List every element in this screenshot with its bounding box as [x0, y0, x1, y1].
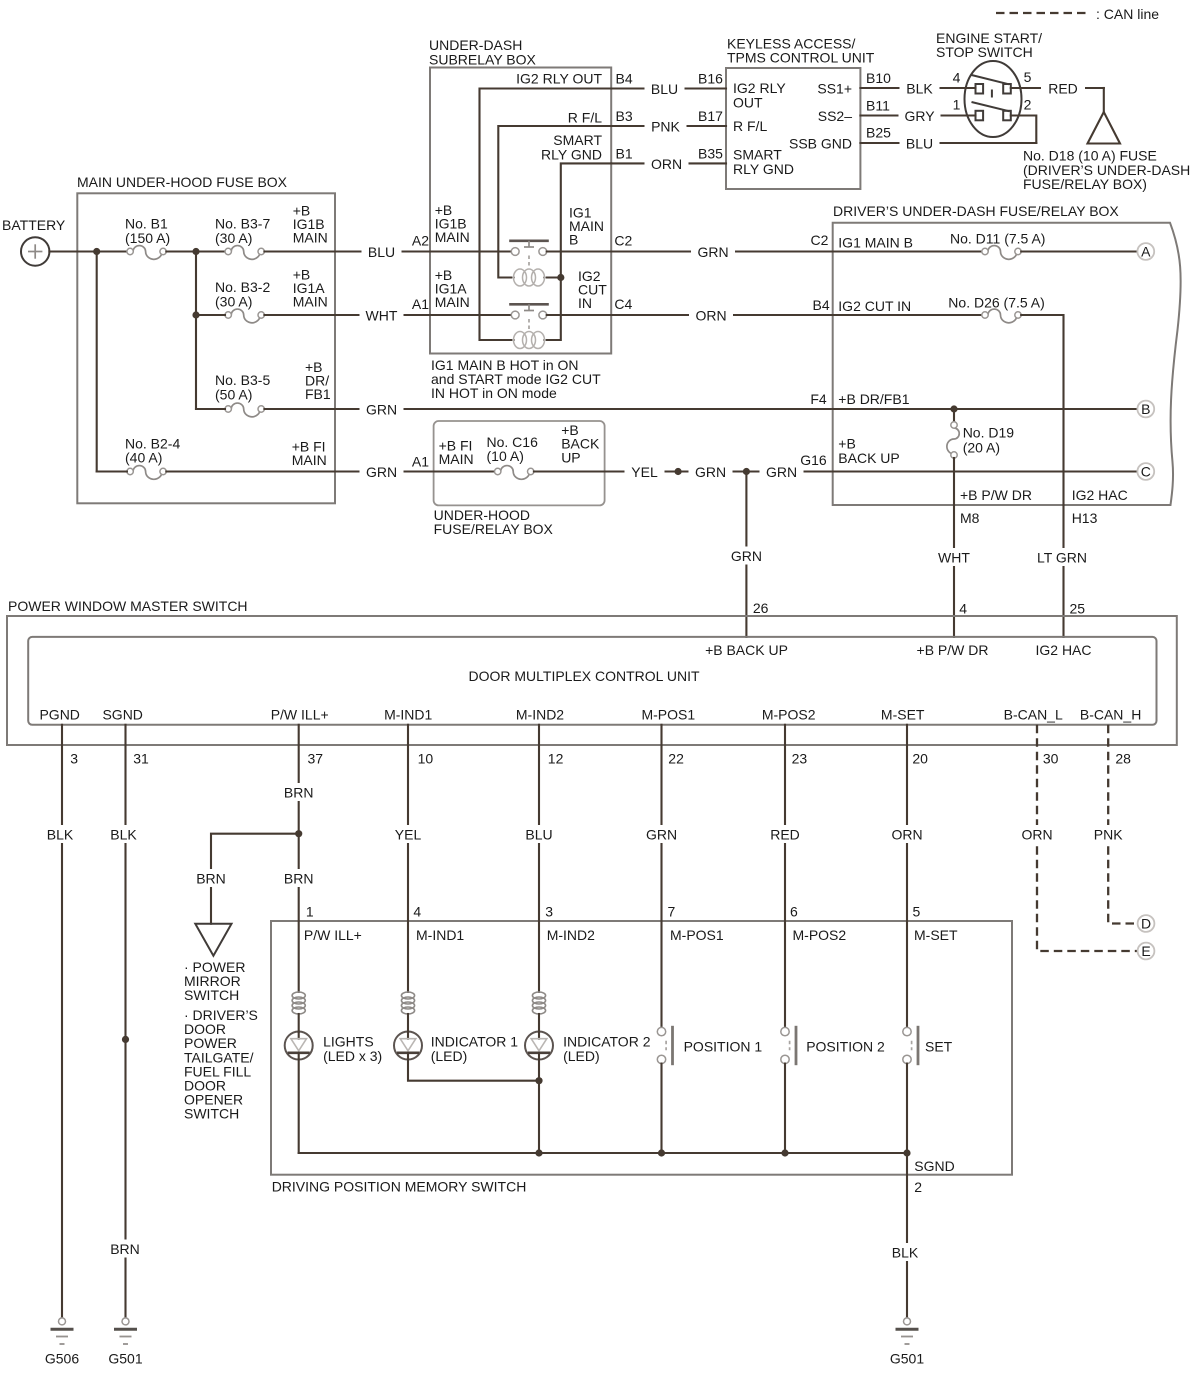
svg-text:BRN: BRN	[196, 871, 226, 887]
svg-text:(30 A): (30 A)	[215, 293, 252, 309]
svg-text:SSB GND: SSB GND	[789, 136, 852, 152]
wire SS2- B11 GRY to pin 1	[860, 98, 975, 125]
svg-text:BRN: BRN	[110, 1241, 140, 1257]
keyless access/TPMS control unit box U1	[726, 36, 875, 190]
ground G501 left	[108, 1318, 142, 1367]
fuse No. B2-4 (40 A)	[125, 435, 180, 479]
svg-text:PNK: PNK	[651, 119, 680, 135]
svg-text:RLY GND: RLY GND	[733, 161, 794, 177]
svg-text:BRN: BRN	[284, 785, 314, 801]
svg-text:3: 3	[545, 904, 553, 920]
svg-text:+B: +B	[838, 435, 856, 451]
svg-text:No. D26 (7.5 A): No. D26 (7.5 A)	[948, 295, 1045, 311]
svg-text:POSITION 1: POSITION 1	[684, 1039, 763, 1055]
svg-text:6: 6	[790, 904, 798, 920]
connector circle E	[1138, 943, 1155, 960]
svg-text:IN: IN	[578, 295, 592, 311]
svg-text:G501: G501	[108, 1351, 142, 1367]
svg-text:G16: G16	[800, 452, 827, 468]
svg-text:(10 A): (10 A)	[487, 448, 524, 464]
LED lights (LED x 3)	[285, 1032, 383, 1064]
wire B3-7 out BLU to A2	[264, 203, 430, 261]
wire SSB GND B25 BLU to pin 2	[860, 116, 1036, 153]
svg-text:FUSE/RELAY BOX: FUSE/RELAY BOX	[434, 521, 554, 537]
svg-text:FUSE/RELAY BOX): FUSE/RELAY BOX)	[1023, 176, 1147, 192]
wire H13 LT GRN down to pin 25	[1031, 505, 1093, 637]
svg-text:(LED): (LED)	[431, 1048, 468, 1064]
under-hood fuse/relay box	[434, 421, 605, 537]
svg-text:BLU: BLU	[651, 81, 678, 97]
wire G16 +B BACK UP to C	[833, 435, 1138, 471]
svg-text:B-CAN_L: B-CAN_L	[1004, 707, 1063, 723]
memory switch top pin labels	[304, 927, 958, 943]
svg-text:MAIN: MAIN	[435, 294, 470, 310]
svg-text:C4: C4	[614, 296, 632, 312]
svg-text:B: B	[569, 232, 578, 248]
svg-text:GRN: GRN	[366, 402, 397, 418]
LED indicator 1	[394, 1032, 518, 1064]
wire indicator1 to indicator2 wire	[408, 1053, 543, 1084]
svg-text:POWER WINDOW MASTER SWITCH: POWER WINDOW MASTER SWITCH	[8, 598, 248, 614]
svg-text:BATTERY: BATTERY	[2, 217, 66, 233]
power window master switch box	[7, 598, 1177, 745]
fuse No. B1 (150 A)	[125, 216, 170, 260]
svg-text:23: 23	[792, 751, 808, 767]
svg-text:F4: F4	[810, 391, 827, 407]
svg-text:PNK: PNK	[1094, 827, 1123, 843]
svg-text:D: D	[1141, 916, 1151, 932]
power mirror switch arrow	[195, 924, 231, 956]
svg-text:MAIN: MAIN	[293, 230, 328, 246]
svg-text:B35: B35	[698, 145, 723, 161]
wire M8 WHT down to pin 4	[932, 505, 976, 637]
svg-text:GRN: GRN	[731, 548, 762, 564]
wire M-SET 20 ORN down	[885, 725, 929, 921]
svg-text:SWITCH: SWITCH	[184, 1106, 239, 1122]
svg-text:A: A	[1141, 244, 1151, 260]
svg-text:DRIVER’S UNDER-DASH FUSE/RELAY: DRIVER’S UNDER-DASH FUSE/RELAY BOX	[833, 203, 1119, 219]
door multiplex control unit box	[28, 637, 1156, 725]
svg-text:MAIN: MAIN	[292, 452, 327, 468]
svg-text:B4: B4	[616, 71, 633, 87]
svg-text:ORN: ORN	[695, 308, 726, 324]
svg-text:B-CAN_H: B-CAN_H	[1080, 707, 1141, 723]
svg-text:G506: G506	[45, 1351, 79, 1367]
svg-text:BRN: BRN	[284, 871, 314, 887]
svg-text:31: 31	[133, 751, 149, 767]
svg-text:MAIN: MAIN	[293, 294, 328, 310]
legend CAN line	[996, 6, 1159, 22]
wire ground bus	[299, 1152, 907, 1154]
svg-text:M-POS1: M-POS1	[670, 927, 724, 943]
wire D19 to M8 +B P/W DR	[953, 458, 955, 505]
svg-text:26: 26	[753, 600, 769, 616]
svg-text:WHT: WHT	[938, 550, 970, 566]
svg-text:PGND: PGND	[39, 707, 79, 723]
svg-text:C2: C2	[614, 233, 632, 249]
svg-text:12: 12	[548, 751, 564, 767]
connector circle B	[1137, 401, 1154, 418]
wire C4 ORN IG2 CUT IN	[611, 297, 911, 324]
relay IG1 MAIN B coil	[511, 269, 547, 286]
svg-text:M-POS1: M-POS1	[641, 707, 695, 723]
connector circle A	[1137, 243, 1154, 260]
wire C16 out YEL-GRN-GRN to G16	[605, 452, 833, 481]
svg-text:RED: RED	[770, 827, 800, 843]
svg-text:1: 1	[953, 97, 961, 113]
svg-text:UNDER-DASH: UNDER-DASH	[429, 37, 522, 53]
wire battery feed	[49, 248, 127, 255]
fuse D18 note text	[1023, 148, 1190, 193]
svg-text:YEL: YEL	[631, 464, 658, 480]
wire lights to bus	[298, 1053, 300, 1153]
svg-text:IG1 MAIN B: IG1 MAIN B	[838, 235, 913, 251]
wire IG2 RLY OUT B4-B16 BLU	[611, 71, 726, 98]
svg-text:UP: UP	[561, 450, 580, 466]
svg-text:BLK: BLK	[906, 81, 933, 97]
under-dash subrelay box	[429, 37, 611, 354]
wire SGND 2 BLK to G501	[885, 1153, 955, 1318]
fuse No. D26 (7.5 A)	[833, 295, 1064, 505]
wire B1 to B3-7	[166, 248, 225, 255]
svg-text:25: 25	[1070, 601, 1086, 617]
svg-text:FB1: FB1	[305, 386, 331, 402]
svg-text:B1: B1	[616, 145, 633, 161]
svg-text:B11: B11	[866, 98, 890, 114]
engine start/stop switch SW1	[936, 30, 1042, 137]
wire SS1+ B10 BLK to pin 4	[860, 70, 975, 97]
driving position memory switch box	[271, 921, 1012, 1195]
svg-text:C: C	[1141, 464, 1151, 480]
svg-text:SGND: SGND	[102, 707, 142, 723]
svg-text:28: 28	[1115, 751, 1131, 767]
connector circle D	[1138, 915, 1155, 932]
svg-text:A1: A1	[412, 296, 429, 312]
svg-text:WHT: WHT	[366, 308, 398, 324]
wire indicator2 to bus	[535, 1053, 542, 1157]
svg-text:22: 22	[668, 751, 684, 767]
svg-text:IG2 HAC: IG2 HAC	[1072, 487, 1128, 503]
switch set	[903, 921, 953, 1065]
master switch bottom pin numbers	[70, 751, 1131, 767]
wire B3-5 out GRN to F4 +B DR/FB1	[264, 359, 832, 418]
svg-text:(20 A): (20 A)	[963, 439, 1000, 455]
svg-text:BACK UP: BACK UP	[838, 450, 899, 466]
wire M-POS2 23 RED down	[763, 725, 807, 921]
resistor lights	[292, 921, 305, 1032]
svg-text:(30 A): (30 A)	[215, 230, 252, 246]
multiplex top pin labels	[705, 642, 1091, 658]
svg-text:MAIN: MAIN	[439, 451, 474, 467]
svg-text:(40 A): (40 A)	[125, 450, 162, 466]
svg-text:GRN: GRN	[366, 464, 397, 480]
fuse No. B3-7 (30 A)	[215, 216, 270, 260]
svg-text:E: E	[1141, 943, 1150, 959]
svg-text:SS2–: SS2–	[818, 108, 852, 124]
svg-text:B25: B25	[866, 125, 891, 141]
fuse D18 triangle symbol	[1088, 112, 1121, 144]
svg-text:B10: B10	[866, 70, 891, 86]
svg-text:BLK: BLK	[110, 827, 137, 843]
driver's box bottom pin labels	[960, 487, 1128, 526]
svg-text:POSITION 2: POSITION 2	[806, 1039, 885, 1055]
svg-text:No. D19: No. D19	[963, 425, 1015, 441]
svg-text:+B P/W DR: +B P/W DR	[917, 642, 989, 658]
wire M-IND2 12 BLU down	[519, 725, 559, 921]
svg-text:4: 4	[413, 904, 421, 920]
svg-text:IG2 RLY OUT: IG2 RLY OUT	[516, 71, 602, 87]
svg-text:BLK: BLK	[892, 1245, 919, 1261]
svg-text:3: 3	[70, 751, 78, 767]
svg-text:B3: B3	[616, 108, 633, 124]
fuse No. C16 (10 A)	[434, 466, 605, 480]
svg-text:MAIN: MAIN	[435, 229, 470, 245]
svg-text:M-IND2: M-IND2	[516, 707, 564, 723]
svg-text:IG2 HAC: IG2 HAC	[1035, 642, 1091, 658]
driver's under-dash fuse/relay box	[833, 203, 1181, 505]
svg-text:SWITCH: SWITCH	[184, 987, 239, 1003]
wire M-IND1 10 YEL down	[388, 725, 428, 921]
svg-text:B17: B17	[698, 108, 723, 124]
svg-text:5: 5	[913, 904, 921, 920]
svg-text:ORN: ORN	[651, 156, 682, 172]
resistor indicator 1	[401, 921, 414, 1032]
wire M-POS1 22 GRN down	[640, 725, 684, 921]
svg-text:M-IND1: M-IND1	[384, 707, 432, 723]
svg-text:IN HOT in ON mode: IN HOT in ON mode	[431, 385, 557, 401]
svg-text:MAIN UNDER-HOOD FUSE BOX: MAIN UNDER-HOOD FUSE BOX	[77, 174, 288, 190]
resistor indicator 2	[532, 921, 545, 1032]
svg-text:1: 1	[306, 904, 314, 920]
wire P/W ILL+ 37 BRN down	[278, 725, 320, 921]
svg-text:B4: B4	[813, 297, 830, 313]
svg-text:M-POS2: M-POS2	[762, 707, 816, 723]
keyless unit pin labels	[733, 80, 852, 177]
svg-text:G501: G501	[890, 1351, 924, 1367]
svg-text:10: 10	[418, 751, 434, 767]
svg-text:SGND: SGND	[914, 1158, 954, 1174]
svg-text:P/W ILL+: P/W ILL+	[271, 707, 329, 723]
wire set to bus	[903, 1064, 910, 1157]
relay IG2 CUT IN contact	[430, 304, 611, 329]
svg-text:M-POS2: M-POS2	[793, 927, 847, 943]
svg-text:BLK: BLK	[47, 827, 74, 843]
engine switch mechanical link	[991, 90, 993, 98]
wire B2-4 out GRN +B FI MAIN	[166, 439, 433, 481]
svg-text:4: 4	[959, 601, 967, 617]
wire pin 5 RED to fuse D18	[1011, 79, 1104, 113]
main under-hood fuse box	[77, 174, 335, 503]
switch position 2	[781, 921, 885, 1065]
fuse No. B3-5 (50 A)	[215, 372, 270, 417]
svg-text:RED: RED	[1048, 81, 1078, 97]
svg-text:LT GRN: LT GRN	[1037, 550, 1087, 566]
wire BRN branch to power mirror switch	[190, 834, 299, 924]
svg-text:R F/L: R F/L	[733, 118, 767, 134]
wire bus vertical x196	[192, 252, 199, 410]
svg-text:GRN: GRN	[697, 244, 728, 260]
svg-text:GRN: GRN	[695, 464, 726, 480]
svg-text:B: B	[1141, 401, 1150, 417]
svg-text:: CAN line: : CAN line	[1096, 6, 1159, 22]
wire F4 +B DR/FB1 to B	[810, 391, 1137, 413]
relay IG1 MAIN B contact	[430, 241, 611, 266]
svg-text:YEL: YEL	[395, 827, 422, 843]
wire SMART RLY GND B1-B35 ORN	[611, 145, 726, 172]
ground G506	[45, 1318, 79, 1367]
svg-text:P/W ILL+: P/W ILL+	[304, 927, 362, 943]
wire IG2 RLY OUT internal	[480, 71, 612, 340]
svg-text:BLU: BLU	[906, 136, 933, 152]
wire PGND 3 BLK to G506	[40, 725, 80, 1318]
svg-text:37: 37	[308, 751, 324, 767]
svg-text:M-SET: M-SET	[914, 927, 958, 943]
svg-text:B16: B16	[698, 71, 723, 87]
switch position 1	[657, 921, 762, 1065]
fuse No. B3-2 (30 A)	[215, 279, 270, 323]
engine switch contact pins 1-2	[953, 97, 1032, 121]
wire B3-2 out WHT to A1	[264, 267, 430, 325]
svg-text:(150 A): (150 A)	[125, 230, 170, 246]
svg-text:SUBRELAY BOX: SUBRELAY BOX	[429, 52, 537, 68]
svg-text:BLU: BLU	[525, 827, 552, 843]
relay IG2 CUT IN coil	[511, 332, 547, 349]
svg-text:R F/L: R F/L	[568, 110, 602, 126]
svg-text:ORN: ORN	[1021, 827, 1052, 843]
svg-text:30: 30	[1043, 751, 1059, 767]
svg-text:SS1+: SS1+	[817, 81, 852, 97]
svg-text:GRN: GRN	[766, 464, 797, 480]
wire +B BACK UP GRN down to pin 26	[724, 472, 768, 637]
svg-text:OUT: OUT	[733, 94, 763, 110]
svg-text:M8: M8	[960, 510, 980, 526]
svg-text:DRIVING POSITION MEMORY SWITCH: DRIVING POSITION MEMORY SWITCH	[272, 1179, 527, 1195]
battery BAT1	[2, 217, 66, 266]
multiplex bottom pin labels	[39, 707, 1141, 723]
svg-text:2: 2	[1024, 97, 1032, 113]
LED indicator 2	[525, 1032, 651, 1064]
svg-text:A2: A2	[412, 233, 429, 249]
wire B-CAN_L 30 ORN dashed to E	[1015, 725, 1139, 951]
subrelay pin labels right	[569, 205, 633, 313]
svg-text:No. D11 (7.5 A): No. D11 (7.5 A)	[950, 230, 1045, 246]
svg-text:BLU: BLU	[368, 244, 395, 260]
wire SMART RLY GND internal	[541, 132, 611, 340]
svg-text:(50 A): (50 A)	[215, 386, 252, 402]
svg-text:DOOR MULTIPLEX CONTROL UNIT: DOOR MULTIPLEX CONTROL UNIT	[468, 668, 699, 684]
engine switch contact pins 4-5	[953, 69, 1032, 94]
svg-text:GRY: GRY	[904, 108, 935, 124]
svg-text:5: 5	[1024, 69, 1032, 85]
svg-text:SET: SET	[925, 1039, 953, 1055]
power mirror switch note text	[184, 959, 258, 1122]
svg-text:M-IND1: M-IND1	[416, 927, 464, 943]
svg-text:RLY GND: RLY GND	[541, 146, 602, 162]
wire position2 to bus	[781, 1064, 788, 1157]
svg-text:M-IND2: M-IND2	[547, 927, 595, 943]
svg-text:4: 4	[953, 70, 961, 86]
wire C2 GRN IG1 MAIN B	[611, 232, 913, 261]
wire R F/L internal	[498, 110, 611, 278]
wire position1 to bus	[658, 1064, 665, 1157]
subrelay pin labels left	[412, 202, 470, 312]
svg-text:+B P/W DR: +B P/W DR	[960, 487, 1032, 503]
svg-text:+B BACK UP: +B BACK UP	[705, 642, 788, 658]
svg-text:2: 2	[914, 1179, 922, 1195]
svg-text:ORN: ORN	[891, 827, 922, 843]
svg-text:20: 20	[912, 751, 928, 767]
wire B-CAN_H 28 PNK dashed to D	[1087, 725, 1139, 924]
svg-text:+B DR/FB1: +B DR/FB1	[838, 391, 909, 407]
connector circle C	[1137, 463, 1154, 480]
wire SGND 31 BLK-BRN to G501	[104, 725, 147, 1318]
subrelay note text	[431, 357, 601, 401]
svg-text:M-SET: M-SET	[881, 707, 925, 723]
svg-text:H13: H13	[1072, 510, 1098, 526]
svg-text:7: 7	[668, 904, 676, 920]
svg-text:A1: A1	[412, 454, 429, 470]
fuse No. D11 (7.5 A)	[833, 230, 1138, 259]
svg-text:(LED x 3): (LED x 3)	[323, 1048, 382, 1064]
svg-text:STOP SWITCH: STOP SWITCH	[936, 44, 1033, 60]
svg-text:(LED): (LED)	[563, 1048, 600, 1064]
svg-text:TPMS CONTROL UNIT: TPMS CONTROL UNIT	[727, 50, 875, 66]
wire bus vertical x96.7	[96, 252, 98, 472]
wire R F/L B3-B17 PNK	[611, 108, 726, 135]
ground G501 right	[890, 1318, 924, 1367]
under-hood box labels	[439, 422, 600, 467]
fuse No. D19 (20 A)	[947, 409, 1014, 458]
svg-text:GRN: GRN	[646, 827, 677, 843]
svg-text:IG2 CUT IN: IG2 CUT IN	[838, 298, 911, 314]
svg-text:C2: C2	[811, 232, 829, 248]
